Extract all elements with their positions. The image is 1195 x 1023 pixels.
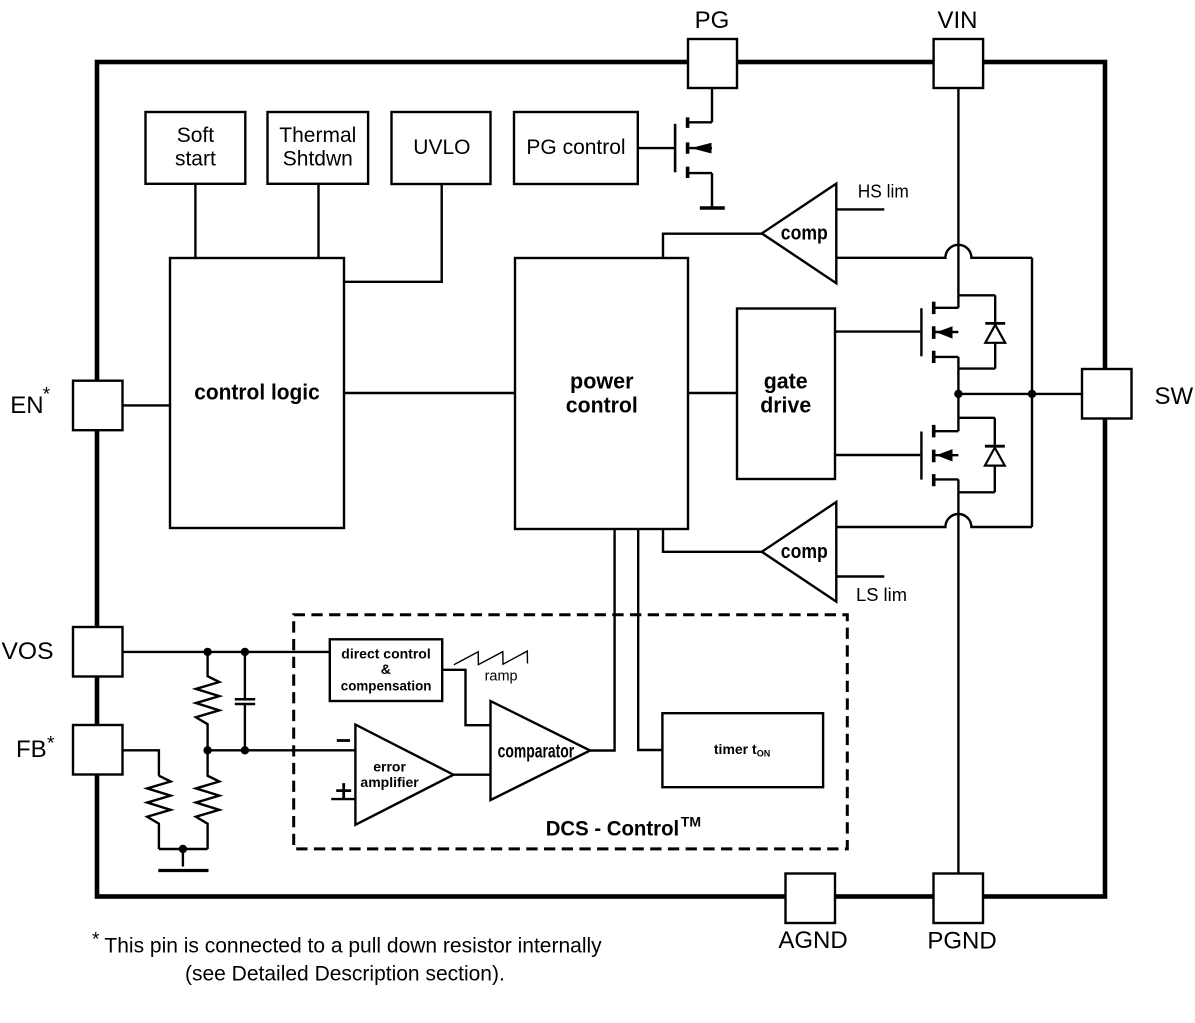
node junction dot capacitor bottom xyxy=(241,746,249,754)
svg-text:LS lim: LS lim xyxy=(856,585,907,605)
node junction dot divider/R-bottom xyxy=(203,746,211,754)
resistor divider bottom xyxy=(196,750,219,849)
capacitor feedforward xyxy=(235,652,255,750)
wire HS FET source to LS FET drain xyxy=(957,357,959,431)
node junction dot VOS/R-top xyxy=(203,648,211,656)
resistor FB pulldown xyxy=(147,776,170,849)
op-amp HS current limit comparator xyxy=(762,184,837,284)
op-amp LS current limit comparator xyxy=(762,502,837,602)
transistor low-side FET xyxy=(921,425,958,486)
block timer tON xyxy=(662,713,823,787)
svg-text:ramp: ramp xyxy=(485,668,518,685)
wire PG pin to PG FET drain xyxy=(711,88,713,122)
wire Thermal Shtdwn to control logic xyxy=(317,184,319,258)
wire LS FET drain rail xyxy=(958,417,994,419)
wire HS comp output to power control xyxy=(663,234,762,258)
wire SW sense vertical xyxy=(1031,258,1033,527)
block Soft start xyxy=(146,112,246,184)
wire VOS to direct control block xyxy=(123,651,330,653)
pin VIN xyxy=(934,7,984,88)
svg-text:This pin is connected to a pul: This pin is connected to a pull down res… xyxy=(104,935,602,958)
wire UVLO to control logic xyxy=(344,184,442,282)
svg-text:Soft: Soft xyxy=(177,124,215,147)
block power control xyxy=(515,258,688,529)
op-amp comparator xyxy=(491,701,591,800)
svg-text:comp: comp xyxy=(781,541,828,563)
block Thermal Shtdwn xyxy=(268,112,369,184)
svg-text:*: * xyxy=(47,734,55,755)
svg-text:(see Detailed Description sect: (see Detailed Description section). xyxy=(185,963,505,986)
svg-text:FB: FB xyxy=(16,736,47,763)
svg-text:drive: drive xyxy=(760,393,811,418)
wire LS FET source to PGND pin xyxy=(957,479,959,873)
wire power control to timer xyxy=(638,529,662,750)
ramp waveform symbol xyxy=(454,651,528,665)
wire comparator output to power control xyxy=(590,529,615,751)
pin AGND xyxy=(778,874,847,955)
svg-text:Shtdwn: Shtdwn xyxy=(283,147,353,170)
svg-text:direct control: direct control xyxy=(341,646,430,662)
svg-text:comp: comp xyxy=(781,223,828,245)
wire control logic to power control xyxy=(344,392,515,394)
svg-text:error: error xyxy=(373,758,406,774)
block PG control xyxy=(514,112,638,184)
wire FB to pulldown resistor xyxy=(123,750,159,775)
wire ground stub xyxy=(182,849,184,867)
ground symbol xyxy=(158,869,208,872)
wire LS lim stub xyxy=(836,575,884,577)
svg-text:amplifier: amplifier xyxy=(360,774,419,790)
block control logic xyxy=(170,258,344,528)
svg-text:*: * xyxy=(92,930,100,951)
svg-text:VOS: VOS xyxy=(2,638,54,665)
op-amp error amplifier xyxy=(355,725,453,825)
pin VOS xyxy=(2,627,123,677)
transistor PG FET (power good indicator) xyxy=(638,117,712,178)
wire error amplifier plus input stub xyxy=(331,798,355,800)
DCS-Control dashed boundary xyxy=(294,615,848,849)
ground PG FET source xyxy=(700,206,725,209)
svg-text:VIN: VIN xyxy=(937,7,977,34)
wire gate drive to HS FET gate xyxy=(835,330,920,332)
svg-text:compensation: compensation xyxy=(341,677,432,693)
resistor divider top xyxy=(196,652,219,750)
svg-text:PGND: PGND xyxy=(927,928,996,955)
transistor high-side FET xyxy=(921,302,958,363)
diode LS body diode xyxy=(985,418,1005,493)
pin PGND xyxy=(927,874,996,955)
pin EN xyxy=(10,381,122,431)
diode HS body diode xyxy=(985,295,1005,368)
node SW junction dot right xyxy=(1028,390,1036,398)
svg-text:SW: SW xyxy=(1155,383,1194,410)
wire HS comp input to SW sense (hops over VIN line) xyxy=(836,245,1032,258)
wire LS comp output to power control xyxy=(663,529,762,552)
wire HS lim stub xyxy=(836,208,884,210)
svg-text:control logic: control logic xyxy=(194,380,320,405)
block gate drive xyxy=(737,309,835,480)
svg-text:EN: EN xyxy=(10,392,43,419)
svg-text:HS lim: HS lim xyxy=(858,182,909,202)
IC boundary box xyxy=(97,62,1105,897)
svg-text:DCS - Control: DCS - Control xyxy=(546,818,680,841)
wire PG FET source to ground xyxy=(711,173,713,207)
wire VIN pin to HS FET drain xyxy=(957,88,959,308)
wire gate drive to LS FET gate xyxy=(835,454,920,456)
pin PG xyxy=(688,7,737,88)
wire LS FET source rail xyxy=(958,491,994,493)
wire EN to control logic xyxy=(123,404,171,406)
svg-text:gate: gate xyxy=(764,369,808,394)
wire HS FET drain rail xyxy=(958,294,995,296)
node error amplifier plus sign xyxy=(336,783,351,798)
svg-text:PG control: PG control xyxy=(526,136,625,159)
block direct control and compensation xyxy=(330,639,442,701)
svg-text:power: power xyxy=(570,369,634,394)
node error amplifier minus sign xyxy=(337,739,350,742)
svg-text:PG: PG xyxy=(695,7,730,34)
wire error amplifier output to comparator xyxy=(454,774,491,776)
wire HS FET source rail xyxy=(958,367,995,369)
svg-text:control: control xyxy=(566,392,638,417)
node junction dot ground xyxy=(179,845,187,853)
block UVLO xyxy=(392,112,491,184)
wire SW node to SW pin xyxy=(958,393,1082,395)
svg-text:comparator: comparator xyxy=(498,742,575,763)
node junction dot VOS/capacitor xyxy=(241,648,249,656)
svg-text:TM: TM xyxy=(681,813,701,829)
wire power control to gate drive xyxy=(688,392,737,394)
svg-text:Thermal: Thermal xyxy=(279,124,356,147)
wire divider node to error amplifier minus input xyxy=(208,749,356,751)
svg-text:&: & xyxy=(381,661,391,677)
svg-text:*: * xyxy=(43,384,51,405)
pin FB xyxy=(16,725,123,775)
pin SW xyxy=(1082,369,1194,419)
node SW junction dot left xyxy=(954,390,962,398)
wire direct control output to comparator xyxy=(442,670,490,725)
svg-text:AGND: AGND xyxy=(778,927,847,954)
svg-text:start: start xyxy=(175,147,216,170)
svg-text:UVLO: UVLO xyxy=(413,136,470,159)
wire LS comp input to SW sense (hops over PGND line) xyxy=(836,514,1032,527)
wire Soft start to control logic xyxy=(194,184,196,258)
wire resistors to ground xyxy=(159,848,208,850)
